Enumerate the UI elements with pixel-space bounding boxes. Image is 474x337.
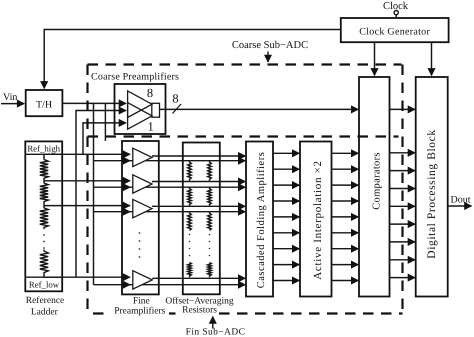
reference ladder box <box>25 141 62 291</box>
fine sub-ADC dashed boundary top <box>88 135 399 137</box>
op-amp fine 3 <box>133 199 152 217</box>
coarse sub-ADC dashed boundary right <box>401 65 403 314</box>
wire fine preamp 3 outputs to folding amplifiers <box>130 206 245 211</box>
resistor ladder chain R3 <box>40 206 48 229</box>
op-amp bank triangle 1 <box>128 91 152 118</box>
ladder continuation dots <box>43 234 45 249</box>
wire clock generator to digital processing block <box>431 42 433 75</box>
svg-text:Comparators: Comparators <box>372 152 383 210</box>
resistor ladder chain R4 <box>40 250 48 278</box>
op-amp fine 2 <box>133 175 152 193</box>
svg-text:Active Interpolation ×2: Active Interpolation ×2 <box>312 160 324 279</box>
label Offset-Averaging Resistors <box>165 296 234 315</box>
svg-text:1: 1 <box>147 120 153 134</box>
coarse preamplifiers block <box>115 84 166 134</box>
wire ladder tap 1 to fine preamp 1 <box>44 153 130 155</box>
svg-text:Digital Processing Block: Digital Processing Block <box>426 129 438 258</box>
op-amp bank triangle 2 <box>128 103 152 130</box>
averaging resistor column B dots <box>209 234 211 257</box>
resistor ladder chain R1 <box>40 154 48 181</box>
wire signal to fine preamp 1 <box>94 160 131 162</box>
coarse sub-ADC dashed boundary left <box>86 65 88 314</box>
wire fine preamp 1 outputs to folding amplifiers <box>130 156 245 161</box>
wire fine preamp 4 outputs to folding amplifiers <box>130 278 245 284</box>
wire signal to fine preamp 3 <box>94 211 131 213</box>
wire bus comparators to digital processing block <box>390 108 416 110</box>
svg-text:8: 8 <box>172 92 178 106</box>
wire signal branch vertical x=93.5 <box>93 103 95 284</box>
svg-text:Resistors: Resistors <box>182 306 217 316</box>
wire Vin to T/H <box>1 103 24 105</box>
svg-text:Dout: Dout <box>451 195 471 206</box>
fine preamplifiers block <box>122 141 159 294</box>
wire ladder tap 2 to fine preamp 2 <box>44 180 130 182</box>
wires comparators to digital processing block (8) <box>390 153 416 278</box>
svg-text:T/H: T/H <box>36 100 52 111</box>
comparators block <box>359 77 390 297</box>
svg-text:Ladder: Ladder <box>31 308 59 318</box>
svg-text:Reference: Reference <box>26 296 65 306</box>
svg-text:Clock Generator: Clock Generator <box>359 27 430 38</box>
node Clock <box>383 1 409 18</box>
wire ladder tap 4 to fine preamp 4 <box>44 276 130 278</box>
node Ref_low <box>25 277 62 289</box>
wire reference branch to coarse preamp input 3 <box>83 123 126 154</box>
wire clock generator to comparators <box>374 42 376 75</box>
coarse sub-ADC dashed boundary top <box>88 63 402 65</box>
label background masks <box>107 305 169 316</box>
node Ref_high <box>25 144 62 155</box>
wire reference branch to coarse preamp input 2 <box>76 111 126 278</box>
fine sub-ADC dashed boundary bottom <box>93 312 403 314</box>
svg-text:Coarse Preamplifiers: Coarse Preamplifiers <box>91 72 179 83</box>
fine preamp continuation dots <box>139 232 141 258</box>
svg-text:Fin Sub−ADC: Fin Sub−ADC <box>186 328 246 337</box>
svg-text:Ref_high: Ref_high <box>27 144 60 154</box>
wire T/H output to coarse preamplifiers <box>62 102 126 104</box>
arrow into fine sub-ADC box <box>212 317 214 329</box>
svg-text:Ref_low: Ref_low <box>29 280 60 290</box>
arrow into coarse sub-ADC box <box>267 52 269 63</box>
offset-averaging resistors block <box>183 143 220 295</box>
svg-text:Vin: Vin <box>3 92 17 103</box>
svg-text:Fine: Fine <box>133 297 150 307</box>
svg-text:Cascaded Folding Amplifiers: Cascaded Folding Amplifiers <box>256 152 267 289</box>
wire clock generator to T/H <box>44 30 341 89</box>
averaging resistor column B <box>208 161 212 278</box>
active interpolation block <box>300 142 332 297</box>
wire signal to fine preamp 4 <box>94 284 131 286</box>
label Fine Preamplifiers <box>114 297 165 317</box>
digital processing block <box>416 77 448 297</box>
wire short branch vertical x=105.4 <box>104 103 106 140</box>
op-amp fine 4 <box>133 271 153 289</box>
averaging resistor column A dots <box>189 234 191 257</box>
wire 8-wide bus to comparators <box>160 108 359 110</box>
averaging resistor column A <box>188 161 192 278</box>
output summing box <box>152 103 160 117</box>
svg-text:Preamplifiers: Preamplifiers <box>114 306 165 316</box>
clock generator U1 <box>341 18 449 42</box>
wire signal to fine preamp 2 <box>94 186 131 188</box>
cascaded folding amplifiers block <box>246 142 273 297</box>
wires folding amplifiers to active interpolation (9) <box>273 153 299 280</box>
bus width slash <box>173 104 182 114</box>
wires active interpolation to comparators (9) <box>332 153 359 280</box>
wire Dout output <box>448 205 472 207</box>
op-amp fine 1 <box>133 148 152 166</box>
T/H block <box>26 90 63 116</box>
resistor ladder chain R2 <box>40 181 48 206</box>
svg-text:Coarse Sub−ADC: Coarse Sub−ADC <box>232 40 308 51</box>
wire fine preamp 2 outputs to folding amplifiers <box>130 182 245 188</box>
svg-text:8: 8 <box>147 86 153 100</box>
wire ladder tap 3 to fine preamp 3 <box>44 205 130 207</box>
